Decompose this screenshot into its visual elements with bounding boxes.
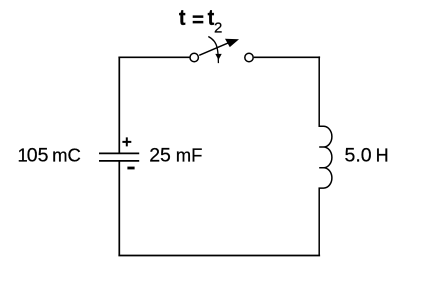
svg-text:5.0: 5.0 <box>345 145 372 167</box>
label: 25 mF (capacitance) <box>149 145 202 167</box>
label: 105 mC (capacitor charge) <box>18 145 81 167</box>
wire: top segment from switch right terminal to top-right corner <box>254 56 320 58</box>
svg-text:2: 2 <box>214 20 222 37</box>
svg-text:t: t <box>179 6 186 30</box>
wire: top segment from top-left corner to switch left terminal <box>118 56 189 58</box>
capacitor C1 top plate <box>99 152 139 154</box>
capacitor polarity - sign <box>127 167 134 170</box>
switch S1 right terminal (open circle) <box>245 53 253 61</box>
capacitor polarity + sign <box>122 137 131 146</box>
svg-text:mC: mC <box>52 145 81 166</box>
switch closing-motion arc with down arrow <box>208 37 221 64</box>
label: 5.0 H (inductance) <box>345 145 389 167</box>
switch S1 blade (open, with arrowhead) <box>199 39 239 56</box>
svg-text:H: H <box>376 146 389 166</box>
inductor L1 with connecting wires <box>319 56 332 255</box>
label: t = t2 (switch time) <box>179 6 222 37</box>
switch S1 left terminal (open circle) <box>190 53 198 61</box>
svg-text:25: 25 <box>149 145 171 167</box>
svg-text:=: = <box>192 8 204 31</box>
wire: left branch bottom segment (capacitor bottom plate to bottom-left corner) <box>118 161 120 256</box>
svg-text:mF: mF <box>176 145 203 166</box>
capacitor C1 bottom plate <box>99 160 139 162</box>
svg-text:05: 05 <box>27 145 49 167</box>
wire: bottom segment (bottom-left to bottom-right corner) <box>118 255 320 257</box>
wire: left branch top segment (top-left corner to capacitor top plate) <box>118 57 120 153</box>
